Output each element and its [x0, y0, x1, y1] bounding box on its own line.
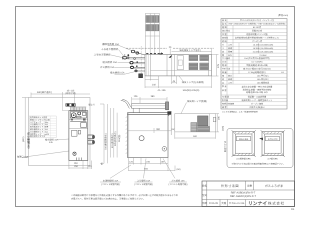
svg-text:※取付穴の寸法は据付工事説明書(別冊)にて御確認下さい。: ※取付穴の寸法は据付工事説明書(別冊)にて御確認下さい。: [232, 163, 285, 166]
bottom annotation group2: [134, 159, 153, 187]
title block grid: [202, 181, 295, 207]
svg-text:ガスNo.41-136: ガスNo.41-136: [229, 202, 245, 205]
svg-text:質 量: 質 量: [222, 71, 227, 74]
side circle small: [162, 147, 167, 152]
svg-text:口: 口: [222, 81, 224, 84]
svg-text:給排気筒トップ・循環金具セット: 給排気筒トップ・循環金具セット: [242, 99, 273, 102]
spec table grid: [221, 19, 287, 109]
svg-text:費: 費: [222, 54, 224, 57]
svg-text:大阪: 大阪: [221, 201, 227, 205]
wall hatch: [126, 116, 128, 154]
svg-text:R1: R1: [291, 208, 295, 211]
svg-text:設 置: 設 置: [222, 33, 227, 36]
side body: [128, 113, 169, 158]
flue end cap: [166, 102, 169, 110]
top pipe comb: [70, 106, 86, 108]
spec table value texts: [229, 19, 286, 109]
side circle big: [139, 136, 144, 141]
svg-text:21.0kW: 21.0kW: [260, 54, 267, 57]
svg-text:ガス接続: ガス接続: [222, 57, 230, 60]
svg-text:ガスふろがま: ガスふろがま: [265, 184, 284, 188]
bottom annotation group1: [100, 165, 131, 186]
svg-text:RBF-ASBD2(K)RN-R-T: RBF-ASBD2(K)RN-R-T: [230, 195, 256, 198]
rear hatched big block: [198, 116, 209, 126]
svg-text:合計: 合計: [228, 54, 232, 57]
svg-text:給湯: 給湯: [228, 78, 232, 81]
svg-text:ブンゼン式: ブンゼン式: [252, 40, 262, 43]
svg-text:0.1~0.5MPa: 0.1~0.5MPa: [251, 61, 263, 64]
svg-text:希望小売価格: 希望小売価格: [222, 102, 234, 105]
svg-text:続: 続: [222, 78, 224, 81]
svg-text:(50): (50): [177, 168, 181, 171]
svg-text:140: 140: [152, 84, 157, 87]
svg-text:給排気: 給排気: [222, 37, 228, 40]
svg-text:品番: 品番: [247, 185, 252, 188]
hatch top/bottom: [234, 132, 254, 156]
grille block bottom-left: [189, 63, 198, 70]
wall dashed line (plan): [126, 47, 167, 49]
svg-text:この機器は取付けや修理など資格を必要とする作業がありますので: この機器は取付けや修理など資格を必要とする作業がありますので、必ずお買い上げの販…: [71, 194, 178, 197]
svg-text:型 式: 型 式: [222, 23, 227, 26]
svg-text:給湯: 給湯: [228, 47, 232, 50]
unit inner top clutter: [70, 112, 86, 128]
svg-text:型式: 型式: [202, 194, 207, 197]
svg-text:種 類: 種 類: [222, 26, 227, 29]
svg-text:大阪ガス(株)扱い: 大阪ガス(株)扱い: [249, 106, 265, 109]
svg-text:同時: 同時: [228, 50, 232, 53]
dark arrow at body top: [169, 55, 173, 58]
svg-text:ガスふろがま(おいだき・シャワー付): ガスふろがま(おいだき・シャワー付): [240, 19, 274, 22]
svg-text:ふろ: ふろ: [228, 81, 232, 84]
svg-text:BF-DP式: BF-DP式: [253, 26, 261, 29]
plan leader 排気トップ: [179, 76, 204, 84]
border frame: [16, 7, 295, 207]
left wall square: [232, 130, 256, 160]
bottom small ticks: [77, 158, 82, 161]
svg-text:循環口 15A: 循環口 15A: [17, 156, 29, 159]
small window rects: [72, 130, 78, 136]
bottom annotation group3: [163, 159, 188, 187]
svg-text:乾電池(単1形×2個) ほか: 乾電池(単1形×2個) ほか: [246, 91, 268, 94]
leader 給水接続: [45, 139, 69, 145]
svg-text:380(排気トップ含む): 380(排気トップ含む): [179, 49, 201, 52]
svg-text:45~115: 45~115: [67, 89, 75, 92]
svg-text:装 置: 装 置: [222, 89, 227, 92]
svg-text:480(凹凸含む): 480(凹凸含む): [37, 90, 52, 94]
svg-text:点火方式: 点火方式: [222, 30, 230, 33]
corner ticks: [232, 130, 256, 157]
svg-text:(フロント配管可能): (フロント配管可能): [169, 183, 188, 186]
flue stack hatch band lower: [146, 25, 159, 31]
svg-text:付 属 品: 付 属 品: [222, 96, 229, 99]
svg-text:(有効寸法): (有効寸法): [65, 92, 75, 95]
svg-text:(単位:mm): (単位:mm): [278, 14, 288, 17]
svg-text:浴室内設置(バランス型): 浴室内設置(バランス型): [246, 33, 268, 36]
knob circle big: [71, 113, 76, 118]
svg-text:安 全: 安 全: [222, 85, 227, 88]
svg-text:(フロント配管可能): (フロント配管可能): [134, 183, 153, 186]
svg-text:705(排気筒含む): 705(排気筒含む): [104, 133, 107, 150]
flue down connector: [132, 108, 134, 112]
drain dot: [73, 152, 76, 155]
flue hatch frame lines: [146, 16, 159, 31]
svg-text:別売品: 別売品: [222, 99, 228, 102]
front top dim line 480: [31, 92, 90, 111]
svg-text:275: 275: [217, 63, 220, 68]
spec text block inside box: [30, 116, 50, 138]
side top dim line: [132, 97, 167, 103]
side bottom dim row1: [129, 158, 176, 172]
svg-text:燃 焼: 燃 焼: [222, 40, 227, 43]
arrow dark: [259, 138, 263, 141]
plan right dim: [212, 55, 219, 77]
svg-text:ふろ返り管接続: ふろ返り管接続: [101, 47, 118, 51]
knob circle small: [78, 112, 81, 115]
front unit body: [69, 111, 88, 161]
svg-text:※1 ガス消費量は、ふろ・給湯同時使用時: ※1 ガス消費量は、ふろ・給湯同時使用時: [222, 111, 258, 114]
svg-text:圧電点火式: 圧電点火式: [252, 30, 262, 33]
svg-text:(CF据付用): (CF据付用): [268, 157, 278, 160]
svg-text:(620): (620): [22, 136, 25, 142]
wall line right: [170, 111, 172, 135]
plan label 5: [100, 65, 130, 69]
svg-text:(フロント配管可能): (フロント配管可能): [101, 183, 120, 186]
svg-text:φ100: φ100: [45, 133, 49, 136]
flue stack hatch band upper: [146, 16, 159, 23]
rear bottom dim: [175, 132, 216, 139]
svg-text:水 圧: 水 圧: [222, 61, 227, 64]
svg-text:排気トップ(左右兼用): 排気トップ(左右兼用): [182, 81, 204, 84]
svg-text:不要(乾電池:単1形×2個): 不要(乾電池:単1形×2個): [246, 64, 268, 67]
dark wall pass block: [167, 111, 171, 114]
svg-text:大阪ガスへ、取付工事は販売店にてお求めの上、工事店にご依頼く: 大阪ガスへ、取付工事は販売店にてお求めの上、工事店にご依頼ください。: [71, 198, 145, 201]
plan body left cap: [150, 55, 152, 76]
svg-text:470×470: 470×470: [268, 138, 278, 141]
plan label 3: [94, 53, 122, 58]
svg-text:310(窓): 310(窓): [118, 134, 121, 142]
svg-text:15A 循環金具: 15A 循環金具: [257, 81, 269, 84]
svg-text:給水接続 15A: 給水接続 15A: [103, 60, 118, 64]
svg-text:ガス接続 15A: ガス接続 15A: [100, 65, 115, 69]
svg-text:自然給排気式(屋外用給排気筒トップ使用のこと): 自然給排気式(屋外用給排気筒トップ使用のこと): [235, 37, 280, 40]
plan bottom dim lines: [145, 76, 212, 88]
svg-text:17.5kg(乾電池含む): 17.5kg(乾電池含む): [248, 71, 266, 74]
wall line left: [128, 113, 130, 158]
rear striped lower block: [198, 126, 210, 131]
grille block top-left: [189, 55, 198, 60]
left vertical dim: [22, 98, 29, 158]
rear outline: [175, 114, 216, 132]
svg-text:ふろ往き管接続: ふろ往き管接続: [94, 53, 111, 57]
svg-text:高さ615×幅555×奥行235(mm): 高さ615×幅555×奥行235(mm): [243, 68, 271, 71]
rear right dim line: [215, 114, 219, 132]
clearance box: [29, 98, 91, 166]
svg-text:465×465: 465×465: [239, 138, 249, 141]
svg-text:側方排気アダプタ: 側方排気アダプタ: [30, 135, 45, 138]
svg-text:備 考: 備 考: [222, 106, 227, 109]
svg-text:15A 平行ねじ: 15A 平行ねじ: [257, 78, 269, 81]
svg-text:接: 接: [222, 75, 224, 78]
flue horizontal pipe: [132, 103, 166, 108]
svg-text:品名: 品名: [202, 184, 207, 188]
plan body division lines: [166, 55, 168, 76]
svg-text:(25): (25): [171, 128, 175, 131]
svg-text:15A 平行ねじ: 15A 平行ねじ: [257, 75, 269, 78]
piping cluster left of plan body: [123, 46, 145, 78]
body top band: [128, 113, 172, 115]
svg-text:16.3kW (14,000kcal/h): 16.3kW (14,000kcal/h): [253, 47, 274, 50]
detail box outline: [227, 129, 293, 168]
svg-text:21.0kW (18,100kcal/h): 21.0kW (18,100kcal/h): [253, 50, 274, 53]
svg-text:41~136: 41~136: [157, 89, 166, 92]
plan label 1: [102, 42, 131, 51]
svg-text:ス: ス: [222, 47, 224, 50]
grille block bottom-right: [200, 63, 208, 70]
svg-text:株式会社: 株式会社: [268, 202, 285, 206]
arrowhead dark: [168, 113, 170, 116]
svg-text:外形寸法図: 外形寸法図: [221, 184, 239, 188]
svg-text:15A(ガス用ゴム管接続不可): 15A(ガス用ゴム管接続不可): [244, 57, 270, 60]
rear hatched small block: [191, 123, 197, 132]
pipe stubs row behind body top: [146, 53, 163, 55]
svg-text:リンナイ: リンナイ: [248, 201, 267, 207]
grille block top-right: [200, 55, 208, 60]
svg-text:ガ: ガ: [222, 43, 224, 46]
spec table header texts: [222, 19, 234, 109]
right stubs: [88, 135, 95, 144]
svg-text:排気筒トップ(別売): 排気筒トップ(別売): [187, 100, 207, 103]
svg-text:(C0標準据付用): (C0標準据付用): [237, 157, 251, 160]
spec text block frame: [29, 116, 56, 138]
plan top dimension line: [172, 51, 212, 53]
circulation pipe pair dark: [66, 103, 76, 106]
svg-text:立消え安全装置・空だき安全装置: 立消え安全装置・空だき安全装置: [242, 86, 273, 89]
svg-text:555(W)×235(D): 555(W)×235(D): [183, 89, 200, 92]
inner label: [236, 137, 251, 141]
plan small panel rect: [177, 56, 183, 70]
svg-text:15.1kW (13,000kcal/h): 15.1kW (13,000kcal/h): [253, 43, 274, 46]
plan body right double line: [208, 55, 210, 76]
rear small right box: [213, 117, 216, 122]
svg-text:RBF-ASBD(K)RN-R-T: RBF-ASBD(K)RN-R-T: [231, 192, 256, 195]
svg-text:2016.05: 2016.05: [209, 202, 219, 205]
plan label 6: [110, 71, 135, 75]
svg-text:保証書・工事説明書: 保証書・工事説明書: [248, 96, 266, 99]
svg-text:外形寸法: 外形寸法: [222, 68, 230, 71]
svg-text:オープン価格: オープン価格: [251, 102, 263, 105]
vertical dim column between views: [100, 104, 117, 163]
flue stack top-view outline: [145, 14, 159, 37]
plan body inner bottom line: [151, 69, 212, 71]
niche step line: [62, 98, 64, 111]
svg-text:作成: 作成: [202, 202, 207, 205]
svg-text:RBF-ASBD(K)RN-R-T(右排気)・RBF-ASB: RBF-ASBD(K)RN-R-T(右排気)・RBF-ASBD(K)LN-L-T…: [229, 23, 286, 26]
unit internals: [69, 118, 88, 120]
svg-text:(225): (225): [222, 126, 225, 131]
plan label 4: [103, 60, 130, 64]
svg-text:給水: 給水: [228, 75, 232, 78]
curved pipe: [121, 101, 130, 109]
flue stack pipe lines down to body: [145, 14, 159, 55]
inner hline: [128, 130, 172, 132]
svg-text:ふろ: ふろ: [228, 43, 232, 46]
left label 給湯栓: [17, 151, 69, 159]
right wall square: [259, 130, 285, 160]
svg-text:消: 消: [222, 50, 224, 53]
plan body outline: [145, 55, 212, 76]
svg-text:電 源: 電 源: [222, 64, 227, 67]
svg-text:品 名: 品 名: [222, 19, 227, 22]
svg-text:525(取付高さ): 525(取付高さ): [114, 131, 117, 146]
svg-text:615(本体高さ): 615(本体高さ): [111, 133, 114, 148]
svg-text:壁より: 壁より: [89, 104, 96, 107]
plan label 2: [101, 47, 124, 56]
